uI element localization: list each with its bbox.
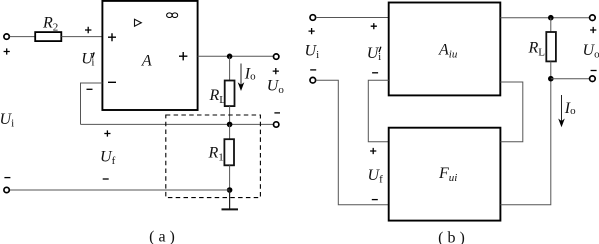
resistor R1 bbox=[224, 139, 234, 165]
wire: node to RL (b) bbox=[550, 18, 552, 32]
label: + of Ui' (b) bbox=[371, 23, 377, 29]
resistor RL (b) bbox=[546, 32, 556, 61]
label Ui' bbox=[81, 51, 94, 69]
svg-text:( a ): ( a ) bbox=[149, 229, 175, 244]
terminal: input + (b) bbox=[310, 15, 316, 21]
label: - polarity at input (b) bbox=[310, 69, 316, 71]
label: + output polarity inside A bbox=[179, 52, 187, 60]
wire: RL bottom through lower node down to Fui bbox=[500, 61, 550, 204]
op-amp block A bbox=[102, 1, 197, 110]
ground bbox=[229, 190, 231, 209]
wire: feedback rail bbox=[81, 123, 274, 125]
label: - polarity of Uf bbox=[103, 178, 109, 180]
terminal: output + (b) bbox=[590, 15, 596, 21]
terminal: input - (a) bbox=[4, 187, 9, 192]
label: + noninverting input of A bbox=[108, 33, 116, 41]
wire: RL bottom to feedback rail bbox=[229, 106, 231, 124]
wire: feedback stub from inverting input bbox=[81, 83, 103, 124]
symbol: infinity gain bbox=[167, 13, 178, 18]
wire: input + to Aiu bbox=[316, 17, 389, 19]
svg-text:i: i bbox=[378, 51, 381, 63]
terminal: output + (a) bbox=[274, 54, 279, 59]
label: + polarity at input (a) bbox=[4, 48, 10, 54]
block Aiu bbox=[389, 3, 501, 96]
terminal: input - (b) bbox=[310, 77, 316, 83]
dashed box: feedback network F bbox=[166, 115, 261, 198]
junction node: output top (b) bbox=[548, 15, 554, 21]
resistor RL (a) bbox=[225, 81, 235, 107]
wire: Aiu top output to output terminal bbox=[500, 17, 589, 19]
symbol: amplifier triangle bbox=[135, 19, 142, 26]
wire: op-amp output to output terminal bbox=[198, 55, 274, 57]
wire: R2 to op-amp block bbox=[61, 36, 102, 38]
label: - polarity of Uo (a) bbox=[274, 112, 280, 114]
label: - inverting input of A bbox=[108, 81, 116, 83]
label Ui' (b) bbox=[367, 45, 381, 63]
label: + polarity of Uo (a) bbox=[273, 68, 279, 74]
label: + polarity at input (b) bbox=[309, 28, 315, 34]
label: - polarity of Uf (b) bbox=[372, 199, 378, 201]
wire: lower node to output - terminal bbox=[551, 78, 590, 80]
wire: rail to R1 bbox=[229, 124, 231, 139]
svg-text:i: i bbox=[91, 57, 94, 69]
label: + polarity of Uo (b) bbox=[590, 27, 596, 33]
wire: input terminal to R2 bbox=[10, 36, 36, 38]
terminal: input + (a) bbox=[4, 34, 9, 39]
wire: input - terminal down to Fui - bbox=[316, 80, 389, 205]
label: - of Ui' (b) bbox=[372, 72, 378, 74]
label: + polarity of Uf (b) bbox=[370, 148, 376, 154]
current arrow Io (a) bbox=[240, 64, 242, 86]
wire: Aiu lower output hook to Fui right bbox=[500, 82, 523, 142]
block Fui bbox=[389, 128, 501, 221]
wire: node to RL bbox=[229, 56, 231, 80]
label: - near inverting input outside block bbox=[87, 88, 93, 90]
current arrow Io (b) bbox=[561, 95, 563, 123]
junction node: ground node bbox=[227, 187, 233, 193]
wire: Aiu inverting input down to Fui + bbox=[368, 80, 389, 141]
terminal: output - (a) bbox=[274, 122, 279, 127]
svg-text:A: A bbox=[141, 53, 152, 70]
resistor R2 bbox=[35, 32, 61, 41]
svg-text:( b ): ( b ) bbox=[438, 230, 465, 244]
wire: bottom return rail bbox=[9, 189, 229, 191]
wire: R1 bottom to ground node bbox=[229, 165, 231, 190]
terminal: output - (b) bbox=[590, 76, 596, 82]
label: - polarity above lower input terminal bbox=[4, 177, 10, 179]
label: + polarity of Uf bbox=[104, 130, 110, 136]
label: - polarity of Uo (b) bbox=[591, 70, 597, 72]
junction node: feedback rail / R1 top bbox=[227, 122, 233, 128]
label: + of Ui' bbox=[85, 27, 91, 33]
junction node: output bottom (b) bbox=[548, 76, 554, 82]
junction node: output / RL top bbox=[227, 54, 233, 60]
